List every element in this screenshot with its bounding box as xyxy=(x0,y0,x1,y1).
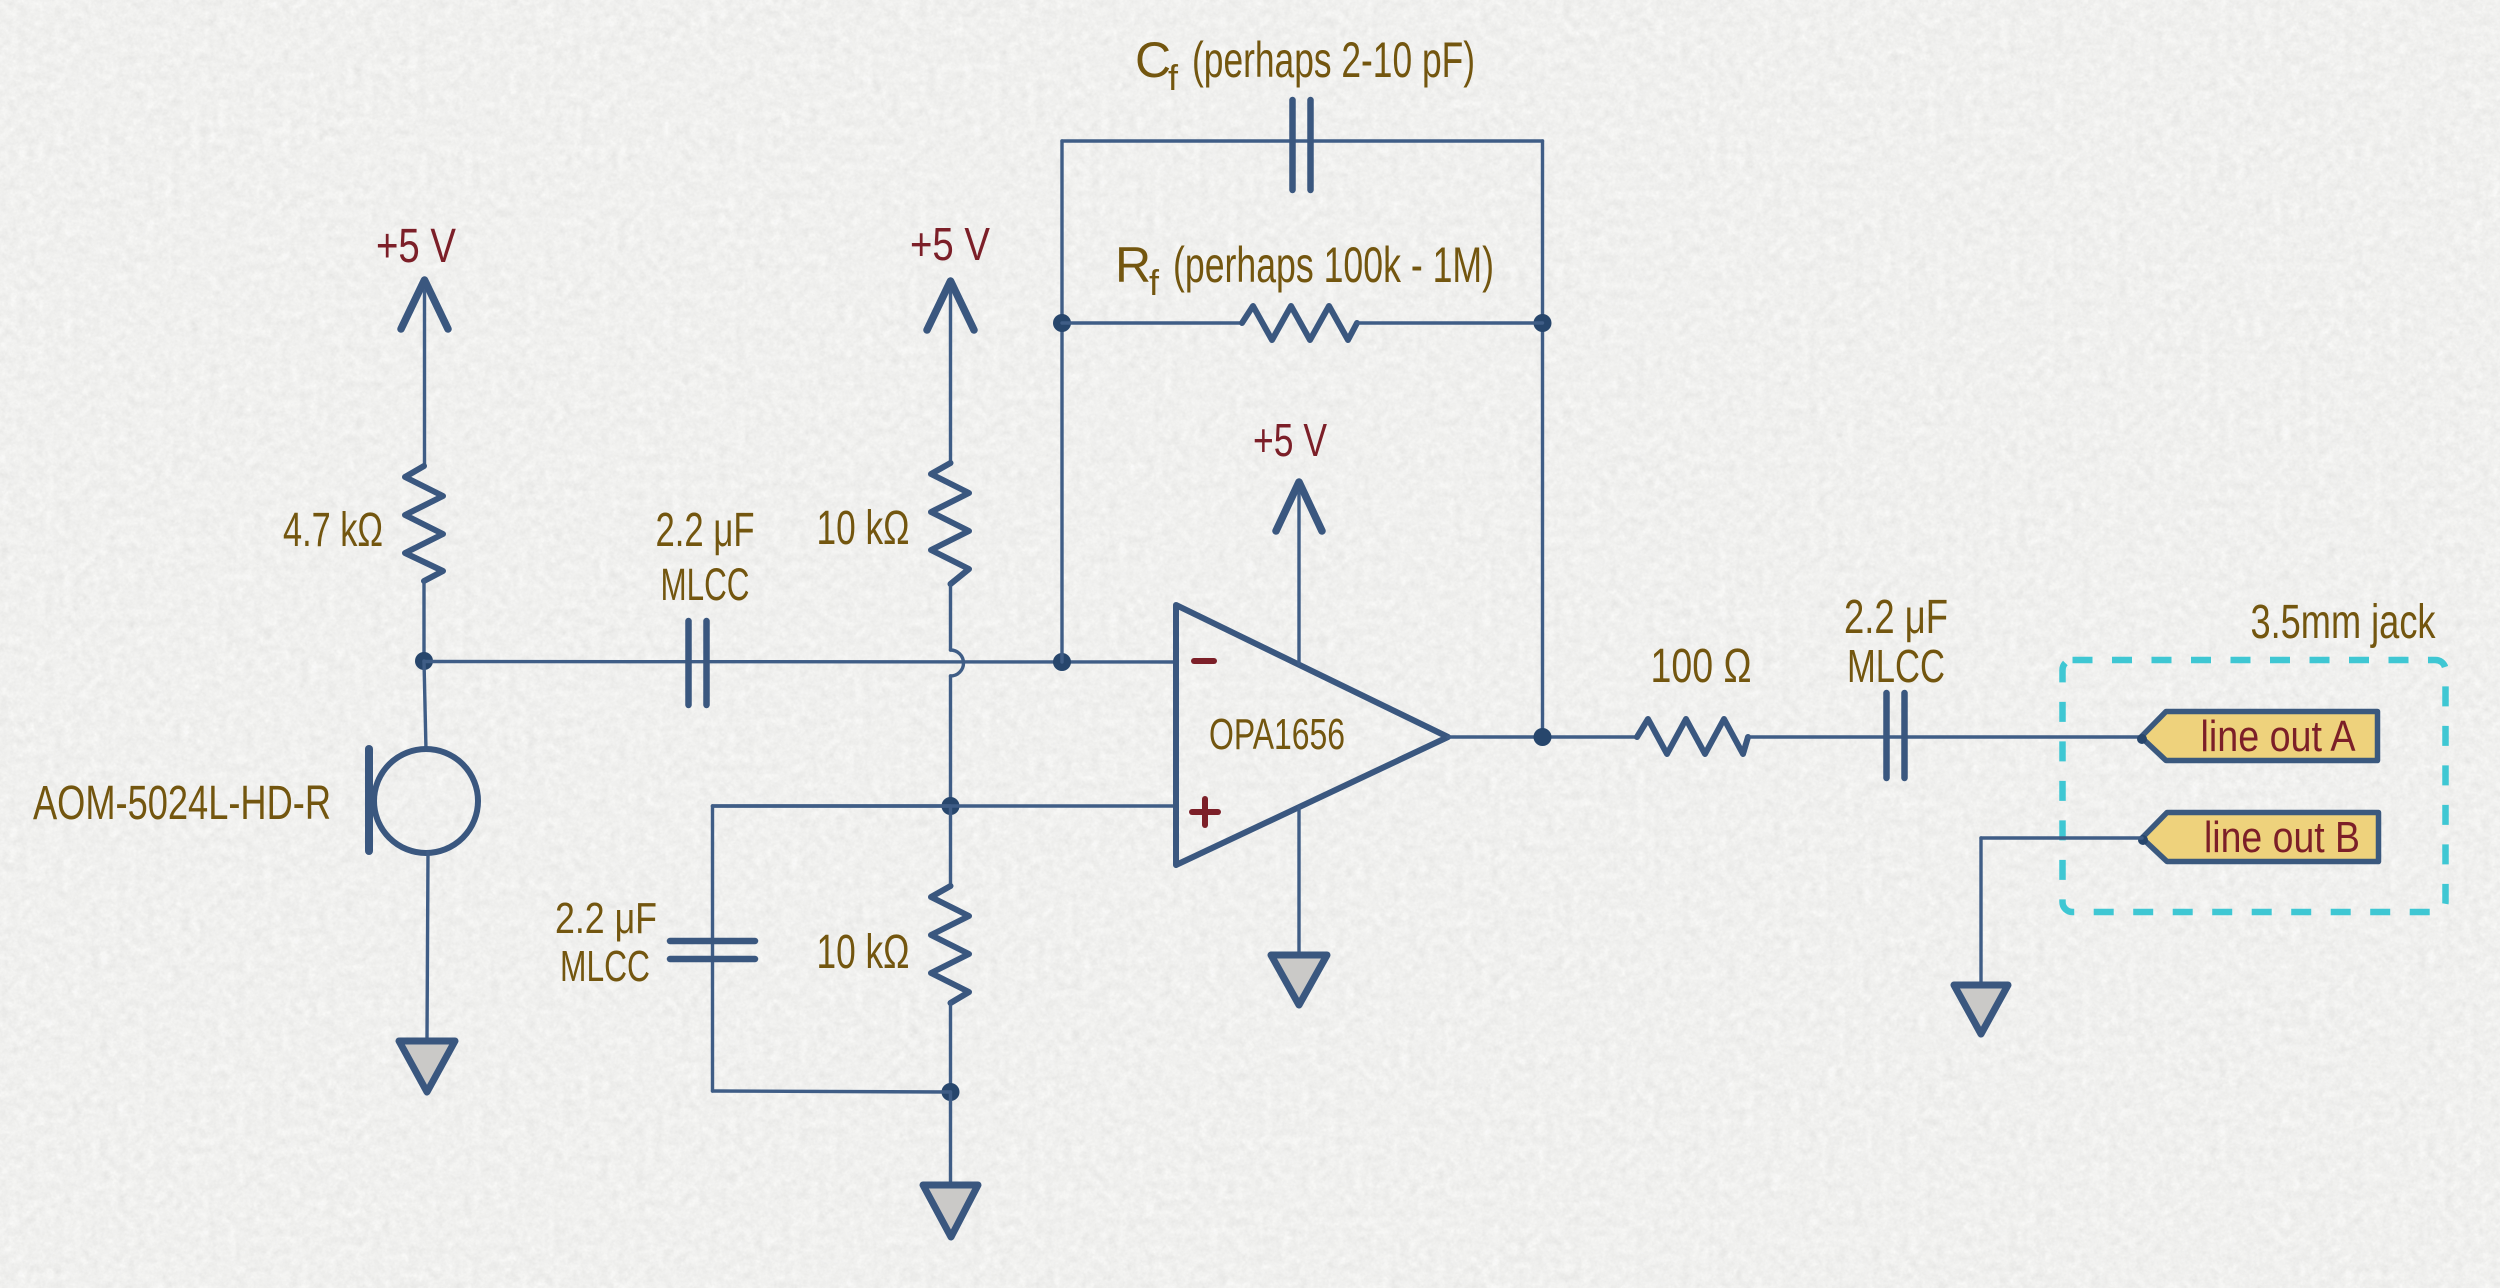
svg-text:2.2 μF: 2.2 μF xyxy=(555,894,657,943)
node input junction xyxy=(415,652,433,670)
svg-text:AOM-5024L-HD-R: AOM-5024L-HD-R xyxy=(33,777,331,830)
wire Rf left segment xyxy=(1062,321,1242,324)
svg-text:MLCC: MLCC xyxy=(1847,640,1945,692)
capacitor 2.2 uF MLCC (input coupling) xyxy=(689,621,707,705)
node tag A tip xyxy=(2137,734,2147,744)
wire microphone to ground xyxy=(427,852,428,1040)
svg-text:OPA1656: OPA1656 xyxy=(1209,710,1345,759)
svg-text:line out A: line out A xyxy=(2201,712,2357,761)
svg-text:(perhaps 100k - 1M): (perhaps 100k - 1M) xyxy=(1173,237,1494,293)
svg-text:f: f xyxy=(1149,262,1160,303)
3.5mm jack dashed box xyxy=(2063,660,2446,912)
wire bottom node to ground xyxy=(949,1092,952,1184)
wire down to bypass cap xyxy=(711,806,714,1091)
svg-text:3.5mm jack: 3.5mm jack xyxy=(2251,596,2437,649)
+5V power arrow (op-amp) xyxy=(1276,482,1322,664)
wire Rf right segment xyxy=(1357,321,1543,324)
resistor Rf xyxy=(1242,306,1357,340)
svg-text:R: R xyxy=(1115,237,1151,293)
wire hop over signal wire xyxy=(951,650,964,676)
wire op-amp output xyxy=(1448,735,1637,738)
capacitor 2.2 uF MLCC (bypass) xyxy=(670,941,755,959)
ground (op-amp) xyxy=(1271,955,1327,1005)
microphone MK1 AOM-5024L-HD-R xyxy=(369,749,478,853)
svg-text:+5 V: +5 V xyxy=(910,218,990,270)
wire + node branch left (bypass cap top) xyxy=(713,804,951,807)
wire hop to + node xyxy=(949,676,952,806)
svg-text:2.2 μF: 2.2 μF xyxy=(656,504,755,557)
svg-text:MLCC: MLCC xyxy=(560,942,650,991)
wire resistor to input node xyxy=(422,581,425,661)
resistor 10 kOhm (lower divider) xyxy=(931,886,969,1003)
node feedback right Rf tap xyxy=(1534,314,1552,332)
ground (line out B) xyxy=(1954,985,2008,1034)
minus input mark xyxy=(1194,658,1214,664)
label Rf (perhaps 100k - 1M) xyxy=(1115,237,1494,303)
svg-text:10 kΩ: 10 kΩ xyxy=(817,926,910,979)
wire 100 Ohm to output cap xyxy=(1748,735,2141,738)
svg-text:(perhaps 2-10 pF): (perhaps 2-10 pF) xyxy=(1192,32,1475,88)
svg-text:4.7 kΩ: 4.7 kΩ xyxy=(283,504,383,557)
node inverting input junction xyxy=(1053,653,1071,671)
svg-text:C: C xyxy=(1135,32,1171,88)
ground (microphone) xyxy=(399,1041,455,1092)
capacitor 2.2 uF MLCC (output) xyxy=(1887,693,1905,778)
wire line out B to ground drop xyxy=(1981,836,2142,839)
wire divider down to hop xyxy=(949,584,952,650)
wire feedback left riser xyxy=(1060,141,1063,662)
resistor 4.7 kOhm xyxy=(405,466,443,581)
wire input node down to microphone xyxy=(424,661,426,750)
ground (divider) xyxy=(923,1185,978,1237)
wire + node to lower resistor xyxy=(949,806,952,886)
node tag B tip xyxy=(2138,835,2148,845)
svg-text:100 Ω: 100 Ω xyxy=(1651,640,1752,693)
svg-text:+5 V: +5 V xyxy=(1253,414,1327,466)
wire non-inverting input line xyxy=(713,804,1177,807)
svg-text:line out B: line out B xyxy=(2204,813,2360,862)
node feedback left Rf tap xyxy=(1053,314,1071,332)
wire op-amp to ground xyxy=(1297,807,1300,954)
tag line out B xyxy=(2142,813,2379,862)
svg-text:2.2 μF: 2.2 μF xyxy=(1844,591,1948,644)
resistor 100 Ohm xyxy=(1637,719,1748,754)
wire feedback right riser xyxy=(1541,141,1544,737)
+5V power arrow (divider) xyxy=(927,281,974,463)
node bottom junction xyxy=(942,1083,960,1101)
wire lower resistor to bottom node xyxy=(949,1003,952,1092)
label Cf (perhaps 2-10 pF) xyxy=(1135,32,1475,98)
svg-text:+5 V: +5 V xyxy=(376,220,456,273)
node output junction xyxy=(1534,728,1552,746)
node + input junction xyxy=(942,797,960,815)
capacitor Cf xyxy=(1293,100,1311,190)
+5V power arrow (left) xyxy=(401,280,448,466)
svg-text:10 kΩ: 10 kΩ xyxy=(817,502,910,555)
wire ground drop xyxy=(1979,838,1982,984)
plus input mark xyxy=(1192,799,1218,825)
op-amp U1 OPA1656 xyxy=(1176,605,1448,865)
svg-text:f: f xyxy=(1168,57,1179,98)
wire bottom across to bottom node xyxy=(713,1091,951,1092)
wire input node to coupling cap xyxy=(424,660,1176,664)
resistor 10 kOhm (upper divider) xyxy=(931,463,969,584)
wire top Cf left segment xyxy=(1062,139,1543,142)
tag line out A xyxy=(2141,712,2378,761)
svg-text:MLCC: MLCC xyxy=(661,559,750,610)
